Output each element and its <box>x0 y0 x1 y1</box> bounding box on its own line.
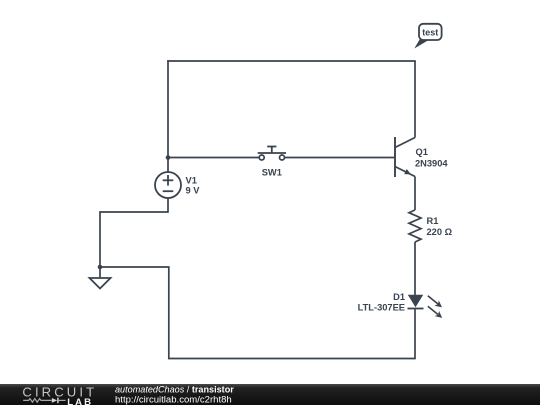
svg-text:V1: V1 <box>186 175 197 185</box>
footer bar <box>0 384 540 405</box>
wire ground rail to bottom <box>100 267 415 359</box>
wire R1 to D1 <box>414 242 416 296</box>
wire Q1 collector to top rail <box>414 61 416 138</box>
net flag test <box>414 24 441 49</box>
wire left vertical to V1 <box>167 60 169 172</box>
svg-text:9 V: 9 V <box>186 185 201 195</box>
svg-text:LTL-307EE: LTL-307EE <box>358 303 405 313</box>
wire node to SW1 left <box>168 157 260 159</box>
node junction at ground <box>98 265 103 270</box>
resistor R1 <box>409 210 421 242</box>
svg-text:D1: D1 <box>393 292 405 302</box>
voltage source V1 <box>155 172 181 198</box>
LED D1 <box>408 295 443 318</box>
svg-text:automatedChaos / transistor: automatedChaos / transistor <box>115 385 234 395</box>
wire SW1 right to Q1 base <box>284 157 395 159</box>
wire V1 minus to ground corner <box>100 198 168 267</box>
node junction at V1/SW1 <box>166 155 171 160</box>
wire Q1 emitter to R1 <box>414 177 416 211</box>
svg-text:Q1: Q1 <box>416 147 428 157</box>
svg-text:LAB: LAB <box>67 397 93 405</box>
switch SW1 pushbutton <box>258 147 286 161</box>
svg-text:2N3904: 2N3904 <box>415 159 448 169</box>
svg-text:http://circuitlab.com/c2rht8h: http://circuitlab.com/c2rht8h <box>115 394 232 405</box>
svg-text:220 Ω: 220 Ω <box>427 227 453 237</box>
wire D1 to bottom rail <box>414 309 416 360</box>
svg-text:SW1: SW1 <box>262 168 282 178</box>
wire top rail <box>167 60 416 62</box>
transistor Q1 <box>395 137 415 177</box>
svg-text:test: test <box>422 28 438 38</box>
svg-text:R1: R1 <box>427 216 439 226</box>
footer logo resistor-diode symbol <box>23 398 65 404</box>
ground <box>90 267 111 289</box>
